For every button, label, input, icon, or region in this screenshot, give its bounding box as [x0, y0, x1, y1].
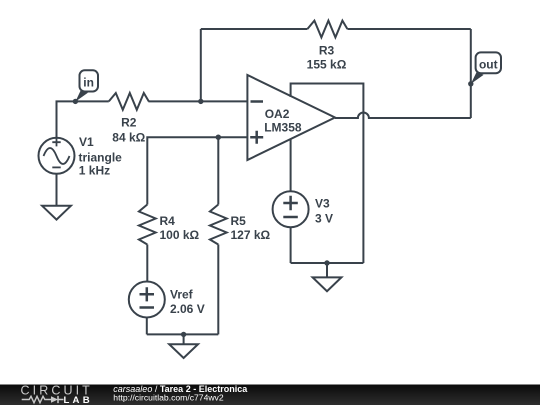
svg-text:R5: R5 [231, 214, 247, 228]
op-amp top power pin up and over to right vertical [291, 84, 364, 264]
svg-text:84 kΩ: 84 kΩ [112, 130, 145, 144]
wire bottom rail Vref-R5 [147, 333, 219, 335]
flag out pointer [471, 72, 484, 84]
resistor R2 [109, 93, 149, 110]
node in junction dot [73, 99, 78, 104]
svg-text:1 kHz: 1 kHz [79, 164, 110, 178]
voltage source Vref [129, 282, 165, 318]
svg-text:in: in [83, 75, 94, 89]
node junction dot R3/inverting [198, 99, 203, 104]
svg-text:127 kΩ: 127 kΩ [231, 228, 271, 242]
op-amp minus input symbol [251, 100, 264, 103]
wire R2 to op-amp inverting input [148, 100, 247, 102]
wire R4 bottom to Vref top [146, 245, 148, 282]
wire V1 top to in node to R2 [57, 101, 109, 138]
svg-text:R3: R3 [319, 43, 335, 57]
op-amp OA2 triangle [247, 75, 335, 160]
svg-text:V1: V1 [79, 135, 94, 149]
svg-text:R2: R2 [121, 115, 137, 129]
op-amp plus input symbol [250, 131, 263, 144]
node junction dot R5 tap [216, 135, 221, 140]
ground below V3 rail [326, 263, 328, 277]
svg-text:OA2: OA2 [265, 107, 290, 121]
flag in box [80, 70, 99, 91]
voltage source V3 [273, 191, 309, 227]
node out junction dot [468, 81, 473, 86]
svg-text:155 kΩ: 155 kΩ [307, 57, 347, 71]
voltage source V1 [39, 138, 75, 174]
resistor R3 [307, 21, 347, 38]
svg-text:R4: R4 [160, 214, 176, 228]
resistor R5 [210, 205, 227, 245]
wire op-amp non-inverting input left to R4 top corner [147, 137, 247, 204]
resistor R4 [139, 205, 156, 245]
svg-text:LAB: LAB [64, 395, 93, 405]
wire right vertical down to output [470, 29, 472, 118]
node junction dot ground rail Vref [181, 332, 186, 337]
flag out box [476, 52, 501, 73]
ground below V1 [42, 206, 71, 220]
svg-text:3 V: 3 V [315, 212, 333, 226]
wire R3 left lead [201, 28, 308, 30]
node junction dot ground rail V3 [324, 260, 329, 265]
op-amp bottom power pin down to V3 [290, 139, 292, 192]
flag in pointer [75, 90, 88, 102]
ground below Vref rail [183, 334, 185, 344]
wire V1 bottom to ground [56, 174, 58, 206]
wire R3 right lead to right vertical [347, 28, 470, 30]
svg-text:100 kΩ: 100 kΩ [160, 228, 200, 242]
svg-text:2.06 V: 2.06 V [170, 302, 205, 316]
wire bottom rail V3 to right vertical [291, 262, 364, 264]
svg-text:out: out [479, 58, 498, 72]
svg-text:http://circuitlab.com/c774wv2: http://circuitlab.com/c774wv2 [113, 392, 224, 402]
svg-text:LM358: LM358 [264, 121, 302, 135]
svg-text:V3: V3 [315, 197, 330, 211]
wire top-left vertical from R3 left to inverting-input node [200, 29, 202, 101]
wire R5 bottom to ground rail [217, 245, 219, 335]
wire V3 bottom to rail [290, 227, 292, 263]
wire R5 tap down from non-inverting wire [217, 137, 219, 204]
svg-text:Vref: Vref [170, 288, 194, 302]
svg-text:triangle: triangle [79, 150, 123, 164]
wire op-amp output with hop over vertical [335, 113, 471, 119]
wire Vref bottom to rail [146, 318, 148, 335]
